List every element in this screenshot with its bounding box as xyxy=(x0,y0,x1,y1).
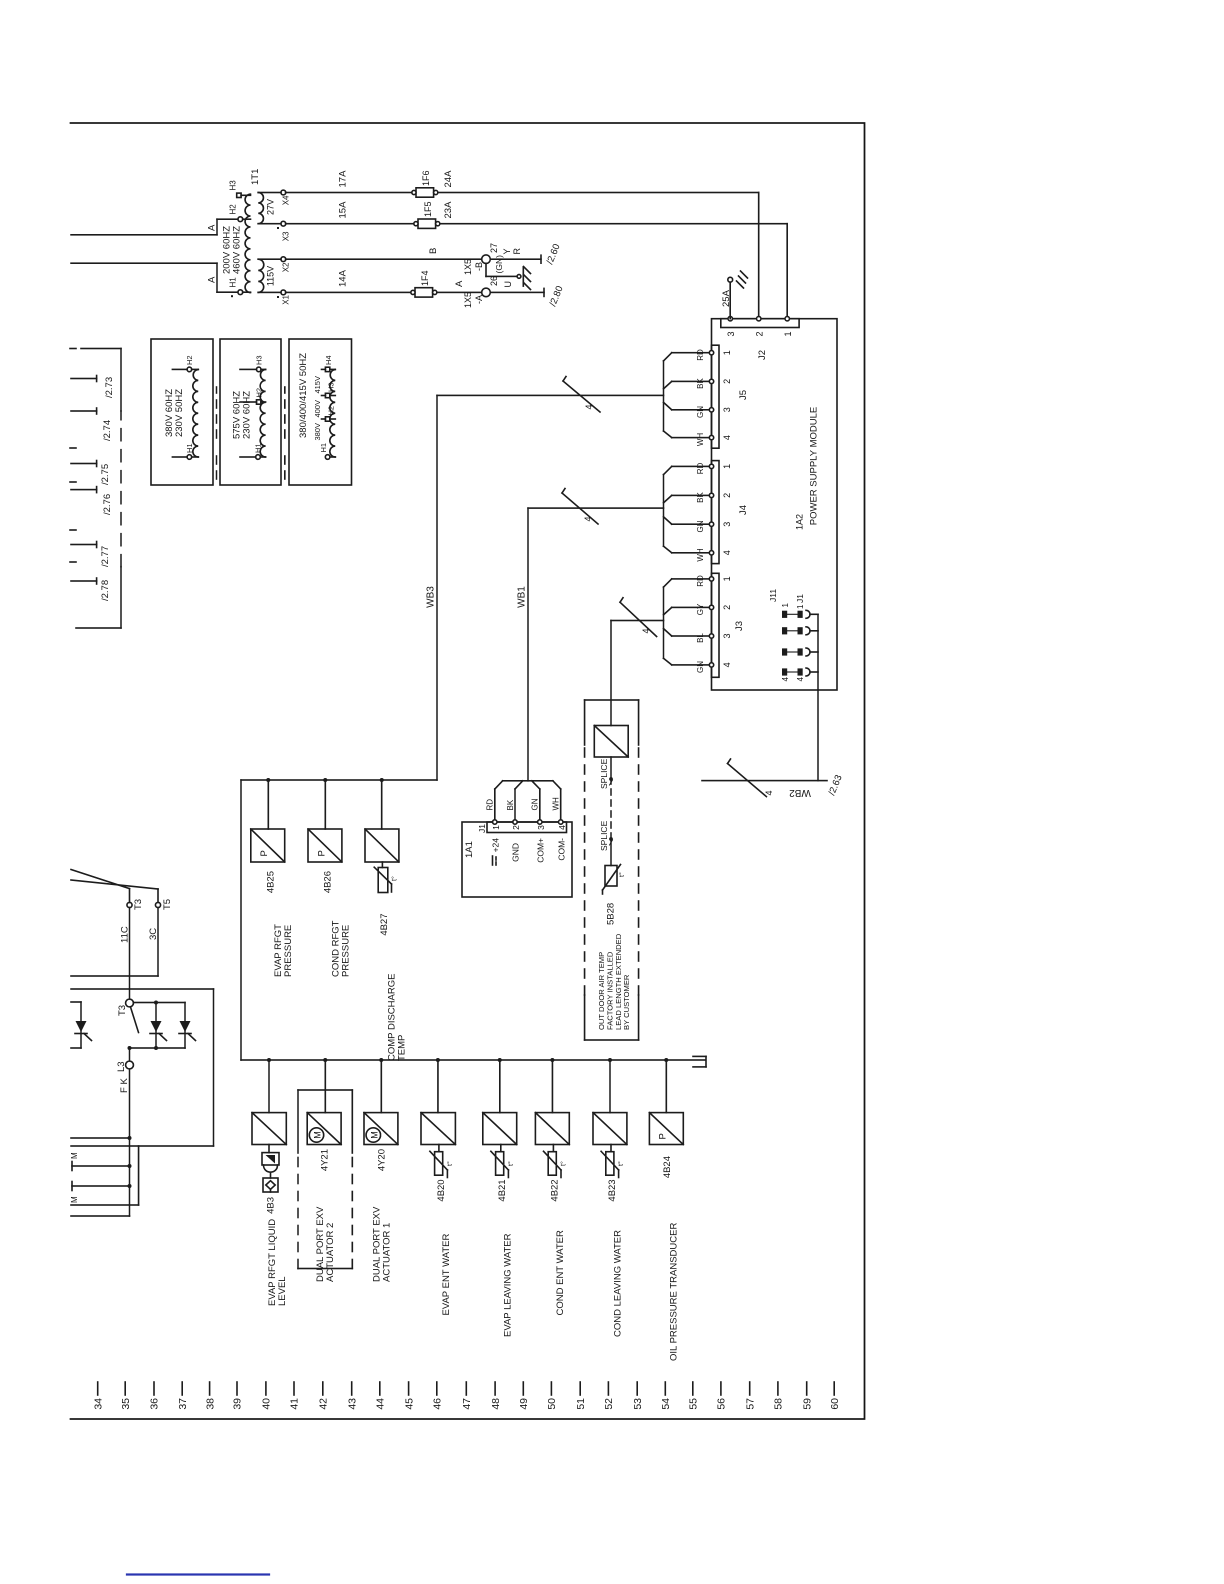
wire corner at X368 xyxy=(71,1215,130,1217)
svg-text:53: 53 xyxy=(632,1398,644,1410)
sensor 4B26 cond rfgt pressure xyxy=(308,778,352,977)
off-page stub /2.73 xyxy=(71,376,115,399)
svg-text:/2.63: /2.63 xyxy=(827,773,845,797)
svg-text:1X5: 1X5 xyxy=(463,259,473,275)
svg-text:A: A xyxy=(207,224,218,231)
svg-text:J2: J2 xyxy=(757,350,768,360)
blue underline artifact at page edge xyxy=(127,1573,269,1575)
alt transformer box 380V/230V xyxy=(151,339,213,485)
svg-text:4B21: 4B21 xyxy=(497,1179,508,1201)
svg-text:43: 43 xyxy=(346,1398,358,1410)
svg-text:WH: WH xyxy=(552,797,561,811)
wire stub with cap at X418 xyxy=(72,1162,132,1171)
svg-text:3: 3 xyxy=(726,332,736,337)
svg-text:WH: WH xyxy=(696,548,705,562)
svg-text:54: 54 xyxy=(660,1398,672,1410)
SCR bypass rails xyxy=(130,1003,186,1049)
svg-text:4: 4 xyxy=(781,676,790,681)
svg-text:1A2: 1A2 xyxy=(795,514,805,530)
svg-text:/2.80: /2.80 xyxy=(548,284,566,308)
svg-text:60: 60 xyxy=(829,1398,841,1410)
WB1 conductor count slash 4 xyxy=(562,489,598,525)
svg-text:WB2: WB2 xyxy=(789,787,811,798)
svg-text:/2.77: /2.77 xyxy=(100,546,111,567)
svg-text:4B27: 4B27 xyxy=(379,914,390,936)
SCR Q1 on top stub xyxy=(71,1002,92,1048)
wire stub with cap at X398 xyxy=(72,1182,132,1191)
SCR Q3 xyxy=(179,1003,196,1049)
svg-text:4B25: 4B25 xyxy=(266,871,277,893)
terminal L3 xyxy=(116,1061,133,1072)
cable WB3 xyxy=(241,395,705,1060)
wire 15A / 23A from X3 xyxy=(286,201,788,319)
svg-text:WB3: WB3 xyxy=(426,586,437,608)
svg-text:Y: Y xyxy=(502,248,512,254)
svg-text:47: 47 xyxy=(461,1398,473,1410)
svg-text:48: 48 xyxy=(490,1398,502,1410)
svg-text:36: 36 xyxy=(149,1398,161,1410)
dashed option box around 4Y21 xyxy=(298,1090,352,1269)
svg-text:3: 3 xyxy=(722,407,732,412)
svg-text:RD: RD xyxy=(696,575,705,587)
svg-text:45: 45 xyxy=(403,1398,415,1410)
svg-text:t°: t° xyxy=(446,1161,454,1166)
grid ruler line numbers 34-60 with ticks xyxy=(92,1398,841,1410)
svg-text:4: 4 xyxy=(722,550,732,555)
svg-text:2: 2 xyxy=(722,493,732,498)
svg-text:4Y21: 4Y21 xyxy=(320,1149,331,1171)
svg-text:1: 1 xyxy=(781,603,790,608)
svg-text:U: U xyxy=(503,281,513,288)
cable bundle J3 xyxy=(664,579,710,665)
WB2 conductor count slash 4 xyxy=(728,759,775,797)
svg-text:/2.74: /2.74 xyxy=(102,420,113,441)
svg-text:H3: H3 xyxy=(229,180,238,191)
svg-text:4: 4 xyxy=(722,435,732,440)
svg-text:40: 40 xyxy=(261,1398,273,1410)
svg-text:/2.75: /2.75 xyxy=(100,464,111,485)
svg-text:H2: H2 xyxy=(229,204,238,215)
svg-text:T5: T5 xyxy=(162,899,173,910)
svg-text:P: P xyxy=(658,1133,669,1139)
sensor 4B20 evap ent water xyxy=(421,1058,455,1316)
svg-text:4: 4 xyxy=(764,790,774,795)
svg-text:ACTUATOR 2: ACTUATOR 2 xyxy=(325,1223,336,1282)
WB3 conductor count slash 4 xyxy=(563,377,600,413)
loop wire X379 xyxy=(71,1146,139,1205)
sensor 4B22 cond ent water xyxy=(535,1058,569,1316)
svg-text:RD: RD xyxy=(696,349,705,361)
svg-text:-B: -B xyxy=(474,262,484,271)
wire stub to top frame at X446 xyxy=(71,1136,132,1140)
svg-text:SPLICE: SPLICE xyxy=(599,820,609,851)
svg-text:1: 1 xyxy=(796,604,805,609)
svg-text:4Y20: 4Y20 xyxy=(377,1149,388,1171)
svg-text:4: 4 xyxy=(583,516,593,521)
svg-text:RD: RD xyxy=(696,463,705,475)
svg-text:56: 56 xyxy=(716,1398,728,1410)
connector J11 pins xyxy=(768,589,790,682)
svg-text:4B23: 4B23 xyxy=(607,1179,618,1201)
svg-text:/2.73: /2.73 xyxy=(104,377,115,398)
border frame (open at top) xyxy=(71,123,865,1419)
svg-text:GN: GN xyxy=(696,406,705,418)
terminal X3 xyxy=(277,221,291,241)
wire 14A / A from X1 xyxy=(286,269,566,308)
svg-text:57: 57 xyxy=(744,1398,756,1410)
svg-text:J3: J3 xyxy=(734,621,745,631)
svg-text:23A: 23A xyxy=(443,201,454,219)
power supply module 1A2 xyxy=(712,319,838,690)
fuse 1F4 xyxy=(411,270,437,297)
1A1 wire colors xyxy=(486,797,561,811)
svg-text:SPLICE: SPLICE xyxy=(599,758,609,789)
svg-text:LEVEL: LEVEL xyxy=(277,1276,288,1306)
J1 socket arcs and bus xyxy=(806,610,818,690)
svg-text:1A1: 1A1 xyxy=(464,841,475,858)
svg-text:1F4: 1F4 xyxy=(420,270,430,286)
off-page stub /2.78 xyxy=(71,578,111,601)
bypass loop wire X595 xyxy=(71,989,214,1146)
svg-text:380V: 380V xyxy=(313,423,322,441)
svg-text:4: 4 xyxy=(557,825,567,830)
svg-text:t°: t° xyxy=(391,876,399,881)
svg-text:1: 1 xyxy=(491,825,501,830)
svg-text:GN: GN xyxy=(696,661,705,673)
off-page stub /2.75 xyxy=(71,461,111,486)
terminal X4 xyxy=(281,190,291,205)
connector J4 xyxy=(709,461,749,564)
svg-text:RD: RD xyxy=(486,799,495,811)
wire 25A with ground xyxy=(721,271,748,319)
bus end bracket xyxy=(693,1056,706,1067)
svg-text:17A: 17A xyxy=(338,170,349,188)
svg-text:M: M xyxy=(313,1131,323,1139)
svg-text:400V: 400V xyxy=(313,400,322,418)
svg-text:3: 3 xyxy=(722,633,732,638)
svg-text:TEMP: TEMP xyxy=(397,1035,408,1061)
svg-text:OIL PRESSURE TRANSDUCER: OIL PRESSURE TRANSDUCER xyxy=(669,1223,680,1361)
svg-text:H3: H3 xyxy=(255,355,264,365)
svg-text:J4: J4 xyxy=(738,505,749,515)
svg-text:J1: J1 xyxy=(477,824,487,833)
svg-text:415V: 415V xyxy=(313,376,322,394)
svg-text:M: M xyxy=(369,1131,379,1139)
continuation group bracket /2.7x xyxy=(70,349,121,629)
J3 wire colors xyxy=(696,575,705,673)
svg-text:H1: H1 xyxy=(319,443,328,453)
sensor 4B3 evap rfgt liquid level xyxy=(252,1058,288,1306)
dashed option box outdoor air temp xyxy=(585,700,639,1040)
svg-text:37: 37 xyxy=(177,1398,189,1410)
svg-text:4B26: 4B26 xyxy=(323,871,334,893)
contact T3 xyxy=(117,999,139,1050)
svg-text:115V: 115V xyxy=(266,266,276,286)
connector J3 xyxy=(709,573,745,677)
svg-text:49: 49 xyxy=(518,1398,530,1410)
svg-text:24A: 24A xyxy=(443,170,454,188)
svg-text:WB1: WB1 xyxy=(517,586,528,608)
svg-text:COM+: COM+ xyxy=(536,838,546,863)
svg-text:X4: X4 xyxy=(282,195,291,205)
svg-text:PRESSURE: PRESSURE xyxy=(341,925,352,977)
svg-text:B: B xyxy=(428,248,439,254)
svg-text:COND ENT WATER: COND ENT WATER xyxy=(555,1230,566,1315)
outdoor air temp sensor square xyxy=(594,726,628,758)
cable WB2 xyxy=(702,690,845,798)
svg-text:P: P xyxy=(259,850,270,856)
svg-text:BK: BK xyxy=(696,492,705,503)
outdoor air temp text xyxy=(597,933,631,1030)
svg-text:1T1: 1T1 xyxy=(250,169,261,185)
cable bundle J4 xyxy=(664,466,710,552)
dashes between boxes xyxy=(284,387,286,479)
svg-text:4: 4 xyxy=(584,404,594,409)
svg-text:H1: H1 xyxy=(185,443,194,453)
svg-text:55: 55 xyxy=(688,1398,700,1410)
wire 17A / 24A from X4 xyxy=(286,170,759,319)
svg-text:A: A xyxy=(454,280,465,287)
ground (GN) tap xyxy=(486,255,531,290)
svg-text:41: 41 xyxy=(289,1398,301,1410)
svg-text:t°: t° xyxy=(507,1161,515,1166)
svg-text:4: 4 xyxy=(796,676,805,681)
svg-text:J5: J5 xyxy=(738,390,749,400)
svg-text:38: 38 xyxy=(204,1398,216,1410)
svg-text:1: 1 xyxy=(722,464,732,469)
svg-text:1: 1 xyxy=(783,332,793,337)
svg-text:230V 50HZ: 230V 50HZ xyxy=(174,389,185,437)
alt transformer box 380/400/415V xyxy=(289,339,352,485)
J5 wire colors xyxy=(696,349,705,446)
svg-text:F K: F K xyxy=(119,1078,130,1093)
dashed wire stubs at top edge xyxy=(70,448,76,562)
svg-text:4B20: 4B20 xyxy=(436,1179,447,1201)
svg-text:27: 27 xyxy=(489,243,499,253)
svg-text:R: R xyxy=(512,248,522,255)
svg-text:34: 34 xyxy=(92,1398,104,1410)
svg-text:(GN): (GN) xyxy=(494,255,504,274)
svg-text:GN: GN xyxy=(531,798,540,810)
off-page stub /2.76 xyxy=(71,487,113,515)
svg-text:2: 2 xyxy=(511,825,521,830)
svg-text:X3: X3 xyxy=(282,231,291,241)
sensor 4B27 comp discharge temp xyxy=(365,778,408,1061)
svg-text:WH: WH xyxy=(696,433,705,447)
svg-text:EVAP LEAVING WATER: EVAP LEAVING WATER xyxy=(503,1233,514,1337)
off-page stub /2.77 xyxy=(71,542,111,568)
svg-text:COM-: COM- xyxy=(557,838,567,861)
sensor 4B21 evap leaving water xyxy=(483,1058,517,1337)
svg-text:X1: X1 xyxy=(282,294,291,304)
svg-text:BK: BK xyxy=(506,799,515,810)
cable bundle 1A1-J1 xyxy=(495,781,561,820)
svg-text:+24: +24 xyxy=(491,838,501,853)
svg-text:59: 59 xyxy=(801,1398,813,1410)
svg-text:t°: t° xyxy=(560,1161,568,1166)
svg-text:COND LEAVING WATER: COND LEAVING WATER xyxy=(613,1230,624,1337)
1T1 secondary 27V xyxy=(258,192,281,223)
svg-text:J11: J11 xyxy=(768,589,778,602)
wire 3C xyxy=(71,908,159,977)
svg-text:4: 4 xyxy=(722,662,732,667)
svg-text:H1: H1 xyxy=(254,443,263,453)
svg-text:4B24: 4B24 xyxy=(662,1156,673,1178)
svg-text:11C: 11C xyxy=(120,926,131,943)
svg-text:T3: T3 xyxy=(133,899,144,910)
svg-text:58: 58 xyxy=(773,1398,785,1410)
1T1 secondary 115V xyxy=(258,259,281,292)
cable WB1 xyxy=(517,508,664,781)
svg-text:1: 1 xyxy=(722,576,732,581)
svg-text:GND: GND xyxy=(511,843,521,862)
svg-text:T3: T3 xyxy=(117,1005,128,1016)
svg-text:5B28: 5B28 xyxy=(606,903,617,925)
svg-text:J1: J1 xyxy=(795,594,805,603)
svg-text:27V: 27V xyxy=(266,199,276,215)
svg-text:3C: 3C xyxy=(148,928,159,940)
node 27 xyxy=(463,243,522,275)
svg-text:15A: 15A xyxy=(338,201,349,219)
thermistor 5B28 xyxy=(603,865,627,926)
svg-text:P: P xyxy=(317,850,328,856)
svg-text:4: 4 xyxy=(641,628,651,633)
terminal T5 xyxy=(71,880,173,910)
splice 1 xyxy=(599,757,613,789)
svg-text:46: 46 xyxy=(432,1398,444,1410)
svg-text:BY CUSTOMER: BY CUSTOMER xyxy=(622,974,631,1030)
svg-text:BL: BL xyxy=(696,633,705,643)
svg-text:X2: X2 xyxy=(282,262,291,272)
svg-text:H1: H1 xyxy=(229,277,238,288)
alt transformer box 575V/230V xyxy=(220,339,281,485)
svg-text:EVAP ENT WATER: EVAP ENT WATER xyxy=(441,1234,452,1316)
svg-text:42: 42 xyxy=(318,1398,330,1410)
terminal T3 xyxy=(71,870,144,911)
svg-text:25A: 25A xyxy=(721,289,732,307)
svg-text:14A: 14A xyxy=(338,269,349,287)
svg-text:GN: GN xyxy=(696,520,705,532)
J4 wire colors xyxy=(696,463,705,562)
svg-text:A: A xyxy=(207,276,218,283)
svg-text:380/400/415V 50HZ: 380/400/415V 50HZ xyxy=(298,353,309,438)
feed wire A to H1 xyxy=(71,263,238,292)
svg-text:/2.78: /2.78 xyxy=(100,580,111,601)
svg-text:-A: -A xyxy=(474,295,484,304)
svg-text:GY: GY xyxy=(696,603,705,615)
device 1A1 xyxy=(462,822,572,897)
svg-text:ACTUATOR 1: ACTUATOR 1 xyxy=(382,1223,393,1282)
terminal X1 xyxy=(277,290,291,305)
actuator 4Y20 dual port exv 1 xyxy=(364,1058,398,1282)
splice 2 with dashed extension xyxy=(599,779,613,866)
svg-text:1: 1 xyxy=(722,350,732,355)
svg-text:4B3: 4B3 xyxy=(266,1197,277,1214)
svg-text:51: 51 xyxy=(575,1398,587,1410)
transformer 1T1 xyxy=(222,169,262,298)
connector J2 xyxy=(721,316,799,360)
cable bundle J5 xyxy=(664,353,710,438)
ruler tick marks xyxy=(98,1382,835,1395)
cable J3 to outdoor sensor xyxy=(611,621,664,726)
node 26 xyxy=(463,276,513,308)
1A1 pin functions xyxy=(493,856,497,865)
svg-text:/2.76: /2.76 xyxy=(102,494,113,515)
svg-text:2: 2 xyxy=(722,379,732,384)
svg-text:L3: L3 xyxy=(116,1061,127,1072)
svg-text:1F6: 1F6 xyxy=(421,170,431,186)
connector J1 pins xyxy=(787,594,805,682)
svg-text:M: M xyxy=(70,1196,79,1203)
svg-text:t°: t° xyxy=(617,1161,625,1166)
connector J5 xyxy=(709,345,749,448)
wire 11C main line xyxy=(129,908,131,1217)
wire B from X2 xyxy=(286,242,563,266)
svg-text:4B22: 4B22 xyxy=(550,1179,561,1201)
feed wire A to H2 xyxy=(71,219,238,235)
sensor 4B24 oil pressure transducer xyxy=(649,1058,683,1361)
svg-text:/2.60: /2.60 xyxy=(545,242,563,266)
svg-text:H4: H4 xyxy=(324,355,333,365)
svg-text:1F5: 1F5 xyxy=(423,201,433,217)
actuator 4Y21 dual port exv 2 xyxy=(307,1058,341,1282)
svg-text:H2: H2 xyxy=(255,388,264,398)
dashes between boxes xyxy=(216,387,218,479)
svg-text:3: 3 xyxy=(536,825,546,830)
SCR Q2 xyxy=(150,1001,167,1051)
svg-text:3: 3 xyxy=(722,522,732,527)
svg-text:50: 50 xyxy=(546,1398,558,1410)
svg-text:35: 35 xyxy=(120,1398,132,1410)
svg-text:M: M xyxy=(70,1152,79,1159)
J3 cable conductor count slash 4 xyxy=(620,598,657,637)
svg-text:26: 26 xyxy=(489,276,499,286)
svg-text:POWER SUPPLY MODULE: POWER SUPPLY MODULE xyxy=(809,407,820,525)
svg-text:460V 60HZ: 460V 60HZ xyxy=(232,226,243,274)
connector J1 on 1A1 xyxy=(477,820,567,833)
svg-text:BK: BK xyxy=(696,378,705,389)
terminal X2 xyxy=(281,257,291,272)
fuse 1F6 xyxy=(412,170,438,197)
fuse 1F5 xyxy=(414,201,440,228)
svg-text:2: 2 xyxy=(755,332,765,337)
svg-text:t°: t° xyxy=(618,872,626,877)
svg-text:PRESSURE: PRESSURE xyxy=(283,925,294,977)
sensor 4B23 cond leaving water xyxy=(593,1058,627,1337)
svg-text:2: 2 xyxy=(722,605,732,610)
svg-text:H2: H2 xyxy=(185,355,194,365)
svg-text:39: 39 xyxy=(232,1398,244,1410)
sensor 4B25 evap rfgt pressure xyxy=(251,778,294,977)
svg-text:52: 52 xyxy=(603,1398,615,1410)
svg-text:44: 44 xyxy=(375,1398,387,1410)
svg-text:230V 60HZ: 230V 60HZ xyxy=(242,391,253,439)
off-page stub /2.74 xyxy=(71,408,113,441)
svg-text:1X5: 1X5 xyxy=(463,292,473,308)
